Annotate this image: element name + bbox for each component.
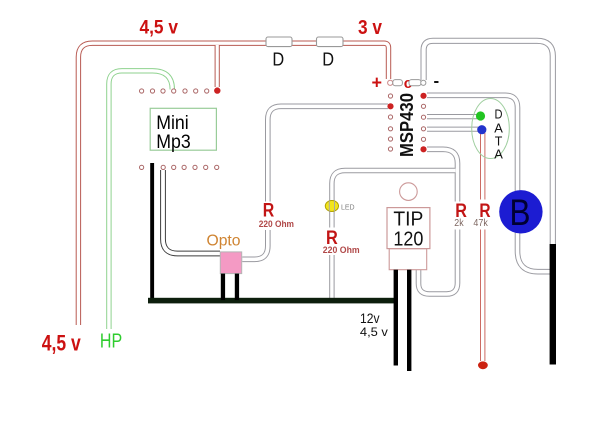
svg-text:LED: LED [341,204,355,211]
svg-text:Mp3: Mp3 [156,132,191,153]
wire +4.5V red rail [78,43,388,325]
transistor TIP120 package circle [400,183,418,201]
LED (yellow) [325,201,354,212]
wire red 47k from blue dot to red dot [480,133,485,361]
module Mini Mp3 box [150,108,216,153]
svg-text:4,5 v: 4,5 v [42,331,82,356]
svg-text:12v: 12v [360,310,380,326]
wire MSP430 pin2 left to R220 down to Opto [242,106,388,259]
wire ground bus (dark green) [148,298,396,304]
svg-text:D: D [495,107,503,122]
transistor TIP120 body [387,208,430,251]
DATA port ellipse [472,99,510,159]
transistor TIP120 lower tab [389,249,427,270]
resistor R 2k label [452,201,470,230]
TIP leg 1 (to bus) [394,270,398,366]
svg-text:Mini: Mini [156,113,189,134]
label D A T A [494,107,503,162]
wire battery minus to top-right rail [424,41,553,250]
svg-text:HP: HP [100,330,122,352]
node green data dot [476,111,485,120]
MiniMp3 bottom pin row [140,165,219,169]
wire thick black right (battery minus down) [550,244,556,365]
wire MSP430 pin4 to blue data dot [427,127,478,132]
wire thick black MiniMp3 ground drop [150,163,154,302]
svg-text:2k: 2k [454,218,464,229]
resistor R2 label 220 Ohm [320,228,362,256]
optocoupler Opto body [220,252,241,274]
TIP leg 2 [407,270,411,371]
wire green HP [109,71,172,329]
svg-text:+: + [372,72,383,92]
svg-text:A: A [494,146,503,161]
MSP430 left pin column [387,94,393,151]
battery cell + c - [372,72,440,93]
wire MSP430 pin1 to buzzer B [427,95,550,271]
node red dot end of 47k wire [478,361,488,369]
resistor R 47k label [472,200,496,230]
node blue data dot [477,125,486,134]
svg-text:B: B [510,192,531,233]
diode D1 [266,37,292,70]
svg-text:220 Ohm: 220 Ohm [323,245,360,255]
svg-text:MSP430: MSP430 [396,93,417,157]
MSP430 right pin column [420,93,426,153]
MiniMp3 top pin row [140,89,209,93]
svg-text:4,5 v: 4,5 v [140,17,179,38]
wire MSP430 pin6 to R2k down to TIP base U-turn [419,149,458,294]
buzzer B [499,190,542,233]
resistor R1 label 220 Ohm [257,201,297,230]
wire LED branch from R2k line down to bus [332,171,456,300]
Opto leg right [235,274,239,301]
wire MSP430 pin3 to green data dot [427,114,477,119]
wire MiniMp3 pin to Opto (dark) [163,170,220,254]
svg-text:-: - [434,72,440,91]
svg-text:D: D [322,50,334,70]
Opto leg left [221,274,225,301]
node red dot MiniMp3 supply pin [214,87,220,93]
svg-text:3 v: 3 v [358,17,383,39]
svg-text:4,5 v: 4,5 v [360,325,388,339]
svg-text:TIP: TIP [393,208,423,230]
label 12v / 4,5 v [360,310,388,339]
wire red branch to MiniMp3 pin [215,45,220,87]
diode D2 [317,37,344,70]
svg-text:47k: 47k [473,218,488,229]
svg-text:D: D [272,50,284,70]
svg-text:220 Ohm: 220 Ohm [259,219,294,229]
svg-text:120: 120 [393,228,423,250]
svg-text:Opto: Opto [207,233,241,250]
